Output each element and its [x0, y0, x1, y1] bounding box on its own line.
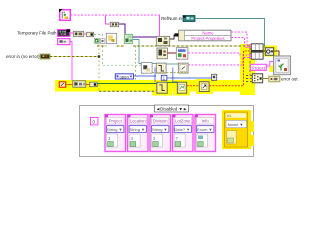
- orange cluster wire B3 to bundle via riser: [209, 51, 251, 86]
- svg-text:◄Disabled ▼►: ◄Disabled ▼►: [156, 106, 187, 111]
- highlight glow: bundle output row around O node: [255, 46, 277, 57]
- svg-text:String ▼: String ▼: [107, 127, 123, 132]
- Disabled selector label: [155, 105, 189, 112]
- blue net wires: [134, 68, 214, 83]
- svg-text:Division: Division: [153, 119, 168, 124]
- band icon B2: [177, 82, 186, 93]
- Project string constant label: [250, 64, 266, 70]
- property node Name / Project Properties: [179, 30, 231, 41]
- open enum constant: [115, 74, 133, 80]
- svg-text:Project Properties: Project Properties: [191, 36, 224, 41]
- dark wire open-project to property node: [170, 35, 179, 39]
- diagram disable structure frame: [80, 106, 254, 157]
- bundle by name node: [249, 44, 263, 59]
- error out terminal: [269, 76, 280, 81]
- wire from string constant right then down to band node n1: [70, 42, 72, 81]
- config refnum wire (light green dashed): J2 right, down, right to icon1: [94, 35, 141, 66]
- svg-text:Name ▼: Name ▼: [228, 122, 244, 127]
- maroon wire P1 to P2: [167, 52, 176, 54]
- cluster element column 1: Project: [105, 115, 126, 152]
- cluster wire bundle through O node down into final VI: [263, 51, 279, 56]
- string constant below: [58, 39, 70, 45]
- small node above B3: [212, 74, 217, 80]
- band icon B3: [199, 82, 209, 92]
- small green run node: [94, 38, 99, 43]
- orange wire B2 to B3: [187, 85, 199, 87]
- svg-text:LotZone: LotZone: [175, 119, 191, 124]
- teal refnum wire right then down to O node: [195, 19, 265, 48]
- svg-text:Enum ▼: Enum ▼: [197, 127, 213, 132]
- cluster element column 6 highlighted yellow: [222, 110, 254, 149]
- teal wire N down to icon1: [133, 40, 141, 64]
- O node: [265, 48, 273, 55]
- node C path-to-string: [110, 22, 118, 26]
- error wire: right, down at x98.5, along under band: [50, 57, 156, 92]
- error wire segments visible between icons: [97, 45, 124, 47]
- array index 0 box: [91, 118, 98, 125]
- highlight glow: vertical riser: [240, 44, 255, 95]
- error in terminal: [40, 54, 50, 59]
- svg-text:Project: Project: [109, 119, 123, 124]
- svg-text:Name: Name: [202, 31, 214, 36]
- teal wire icon2 to icon3: [166, 63, 178, 65]
- svg-text:RefNum in: RefNum in: [161, 16, 182, 21]
- subVI icon top-left: [59, 9, 70, 20]
- pink wire icon3 to bundle stub5: [188, 58, 251, 66]
- pink wire Project label to final VI: [267, 62, 274, 67]
- icon row: icon1: [141, 63, 152, 74]
- error wire N: right to riser, and branch down at x135.5: [133, 46, 250, 76]
- node n1 on band: [73, 81, 86, 87]
- convert node P2: [176, 48, 188, 60]
- svg-text:Temporary File Path: Temporary File Path: [17, 30, 57, 35]
- olive stub wires into merge node: [246, 76, 252, 82]
- numeric constant 1: [161, 75, 167, 80]
- pink wire Project Properties output to bundle stub2: [231, 38, 251, 48]
- wire string branch down to node C: [106, 15, 111, 24]
- wire path terminal to node J1: [70, 32, 73, 34]
- purple wire C to green node N: [119, 24, 125, 34]
- svg-text:Project: Project: [252, 65, 266, 70]
- merge output wire: [263, 78, 269, 80]
- Temporary File Path terminal: [58, 29, 70, 36]
- svg-text:open: open: [120, 74, 130, 79]
- svg-text:Location: Location: [130, 119, 147, 124]
- green node N: [124, 34, 132, 43]
- svg-text:Info: Info: [202, 119, 210, 124]
- highlight glow: main band: [55, 79, 252, 96]
- cluster element column 5: Info: [195, 115, 216, 152]
- svg-text:0: 0: [93, 119, 96, 124]
- cluster element column 2: Location: [128, 115, 149, 152]
- merge errors node: [252, 74, 262, 83]
- teal wire icon1 to icon2: [152, 63, 156, 65]
- svg-text:#1: #1: [227, 114, 231, 118]
- cluster element column 4: LotZone: [173, 115, 194, 152]
- open project node: [156, 36, 169, 45]
- icon row: icon2 file dialog: [156, 63, 166, 73]
- wire string from subVI icon to right: [71, 14, 160, 16]
- wire string down to open-project node: [159, 15, 161, 36]
- white VI icon (config): [106, 33, 116, 43]
- pink wire P2 to bundle stub4: [188, 53, 251, 55]
- icon row: icon3: [178, 63, 188, 73]
- pink wire J1 to J2: [84, 33, 86, 35]
- band icon B1: [157, 82, 167, 93]
- small node next to run: [100, 39, 105, 44]
- highlight glow: blob left of final subVI: [270, 66, 274, 73]
- purple wire N to open-project: [133, 36, 156, 38]
- orange wires linking band nodes: [66, 84, 90, 86]
- RefNum in terminal: [183, 16, 195, 22]
- olive error chain under icon row: [152, 72, 188, 74]
- node J1 string-to-path: [73, 31, 83, 36]
- pink wire Name output to bundle stub1: [231, 32, 251, 45]
- cluster element column 3: Division: [150, 115, 171, 152]
- svg-text:String ▼: String ▼: [152, 127, 168, 132]
- red-bordered express VI on band: [59, 82, 65, 87]
- svg-text:Date? ▼: Date? ▼: [174, 127, 190, 132]
- node n2 on band: [90, 82, 97, 87]
- svg-text:error in (no error): error in (no error): [6, 54, 40, 59]
- node J2 open config: [86, 32, 93, 36]
- svg-text:String ▼: String ▼: [129, 127, 145, 132]
- project tree node P1: [157, 48, 167, 59]
- svg-text:error out: error out: [281, 77, 298, 82]
- green path wire B1 to B2: [167, 82, 177, 84]
- final subVI icon: [273, 56, 290, 75]
- green path wire n2 to B1: [97, 83, 156, 85]
